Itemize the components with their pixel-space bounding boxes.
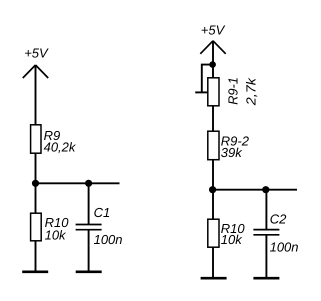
supply +5V symbol (left arrow)	[23, 65, 48, 78]
wire node B to wiper	[202, 65, 213, 93]
svg-text:40,2k: 40,2k	[44, 139, 77, 154]
capacitor C1	[76, 225, 102, 230]
junction node C2 tap	[262, 186, 269, 193]
trimmer R9-1 body	[208, 78, 219, 106]
wire +5V to R9	[35, 65, 37, 125]
svg-text:100n: 100n	[270, 240, 299, 255]
wire node C horizontal	[213, 189, 297, 191]
wire node A horizontal	[36, 182, 120, 184]
svg-text:100n: 100n	[94, 232, 123, 247]
ground (right of left circuit)	[76, 270, 102, 273]
svg-text:2,7k: 2,7k	[244, 76, 259, 106]
resistor R9-2	[208, 131, 219, 160]
wire C2 to ground	[265, 235, 267, 277]
wire node A2 to C1	[88, 183, 90, 224]
wire node C2 tap to C2	[265, 190, 267, 230]
supply +5V symbol (right arrow)	[200, 41, 225, 54]
wire R9-2 to node C	[212, 160, 214, 220]
resistor R10 (left)	[31, 213, 42, 241]
junction node A	[32, 180, 39, 187]
resistor R9	[31, 125, 41, 153]
svg-text:C1: C1	[94, 205, 111, 220]
svg-text:39k: 39k	[221, 145, 243, 160]
ground (left of right circuit)	[201, 277, 227, 280]
wire R10 to ground (right)	[212, 247, 214, 277]
junction node C	[209, 186, 216, 193]
svg-text:R9-1: R9-1	[225, 77, 240, 105]
svg-text:C2: C2	[270, 212, 287, 227]
capacitor C2	[253, 230, 279, 235]
svg-text:+5V: +5V	[201, 23, 226, 38]
wire R9 to node A	[35, 154, 37, 213]
svg-text:10k: 10k	[45, 228, 67, 243]
wire C1 to ground	[88, 230, 90, 271]
svg-text:+5V: +5V	[24, 45, 49, 60]
wire R9-1 to R9-2	[212, 106, 214, 131]
junction node B (wiper tie)	[209, 61, 216, 68]
svg-text:10k: 10k	[221, 232, 243, 247]
wire R10 to ground (left)	[35, 241, 37, 271]
trimmer R9-1 wiper	[195, 91, 207, 93]
ground (left of left circuit)	[22, 270, 48, 273]
resistor R10 (right)	[208, 219, 219, 247]
junction node A2 (C1 tap)	[85, 180, 92, 187]
wire +5V to node B	[212, 41, 214, 78]
ground (right of right circuit)	[253, 277, 279, 280]
